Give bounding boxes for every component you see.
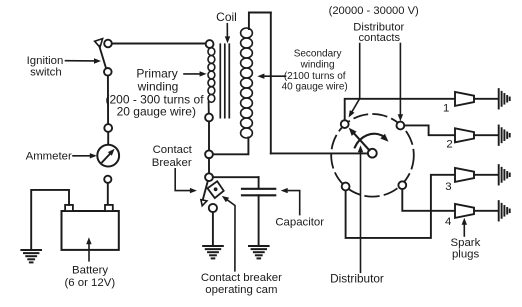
ignition switch S1 (95, 39, 112, 76)
svg-text:Coil: Coil (216, 10, 237, 24)
wire (474, 98, 498, 100)
label Distributor contacts (329, 5, 419, 121)
svg-text:20 gauge wire): 20 gauge wire) (117, 105, 196, 119)
contact breaker (201, 181, 217, 212)
svg-text:Spark: Spark (451, 237, 481, 249)
svg-text:operating cam: operating cam (205, 284, 277, 296)
svg-text:Capacitor: Capacitor (275, 216, 324, 228)
label Contact Breaker (152, 144, 197, 193)
wire (208, 158, 210, 173)
label Capacitor (275, 188, 324, 229)
primary winding L1 (205, 40, 215, 121)
secondary winding L2 (241, 28, 253, 138)
wire (474, 134, 498, 136)
rotor centre (368, 149, 377, 158)
svg-text:(6 or 12V): (6 or 12V) (64, 277, 115, 289)
svg-text:Ammeter: Ammeter (26, 151, 72, 163)
svg-text:plugs: plugs (452, 249, 480, 261)
spark plug 1 (455, 92, 474, 106)
distributor body (dashed circle) (331, 114, 414, 197)
svg-text:contacts: contacts (358, 32, 400, 44)
label Ignition switch (27, 55, 101, 79)
wire (213, 138, 249, 155)
wire (107, 76, 109, 125)
wire (213, 176, 259, 178)
spark gap 1 (499, 89, 510, 108)
distributor contact 2 (397, 122, 405, 130)
wire contact2 to plug2 (404, 125, 455, 135)
wire contact3 to plug4 (402, 189, 455, 211)
svg-text:Contact breaker: Contact breaker (201, 272, 282, 284)
ground (203, 246, 223, 258)
distributor contact 3 (lower right) (398, 181, 406, 189)
svg-text:3: 3 (445, 181, 451, 193)
svg-text:(20000 - 30000 V): (20000 - 30000 V) (329, 5, 419, 17)
wire (258, 195, 260, 246)
wire (271, 152, 368, 154)
wire (112, 43, 206, 45)
svg-text:Primary: Primary (136, 67, 177, 81)
wire (249, 13, 271, 30)
label Battery (64, 237, 115, 289)
wire (474, 174, 498, 176)
label Primary winding (105, 67, 206, 119)
rotation arrow (355, 134, 389, 148)
svg-text:Contact: Contact (153, 144, 193, 156)
distributor contact 4 (lower left) (342, 183, 350, 191)
svg-text:Battery: Battery (72, 264, 108, 276)
wire (208, 121, 210, 150)
wire contact1 to plug1 (345, 99, 455, 120)
battery BT1 (62, 205, 119, 250)
cam (208, 181, 224, 198)
capacitor C1 (242, 189, 275, 196)
svg-text:Ignition: Ignition (27, 55, 64, 67)
ground (249, 246, 269, 258)
label Coil (216, 10, 237, 43)
ground (21, 250, 41, 262)
svg-text:Secondary: Secondary (294, 49, 342, 60)
svg-text:winding: winding (137, 80, 179, 94)
label Secondary winding (257, 49, 347, 93)
wire contact4 to plug3 (346, 175, 455, 238)
svg-text:Distributor: Distributor (330, 272, 384, 286)
svg-text:Breaker: Breaker (152, 157, 192, 169)
spark plug 2 (455, 128, 474, 142)
wire (107, 183, 109, 205)
svg-text:winding: winding (300, 60, 335, 71)
spark plug 3 (455, 168, 474, 182)
label Distributor (330, 145, 384, 285)
terminal (205, 173, 213, 181)
terminal (104, 124, 112, 132)
svg-text:2: 2 (446, 138, 452, 150)
wire (212, 212, 214, 246)
svg-text:40 gauge wire): 40 gauge wire) (282, 82, 348, 93)
spark gap 2 (499, 126, 510, 145)
label Spark plugs (451, 218, 481, 261)
terminal (104, 176, 111, 183)
distributor contact 1 (341, 120, 349, 128)
wire (31, 190, 69, 250)
label Contact breaker operating cam (201, 196, 282, 296)
svg-text:(2100 turns of: (2100 turns of (284, 71, 346, 82)
coil core (220, 44, 229, 117)
ammeter M1 (97, 145, 119, 167)
node junction (205, 150, 213, 158)
wire (258, 177, 260, 188)
rotor arm (349, 128, 370, 151)
spark plug 4 (455, 204, 474, 218)
wire (270, 13, 272, 154)
wire (474, 210, 498, 212)
svg-text:4: 4 (445, 216, 451, 228)
spark gap 3 (499, 165, 510, 184)
spark gap 4 (499, 201, 510, 220)
label Ammeter (26, 151, 97, 163)
svg-text:1: 1 (443, 103, 449, 115)
wire (107, 132, 109, 145)
svg-text:switch: switch (30, 67, 62, 79)
